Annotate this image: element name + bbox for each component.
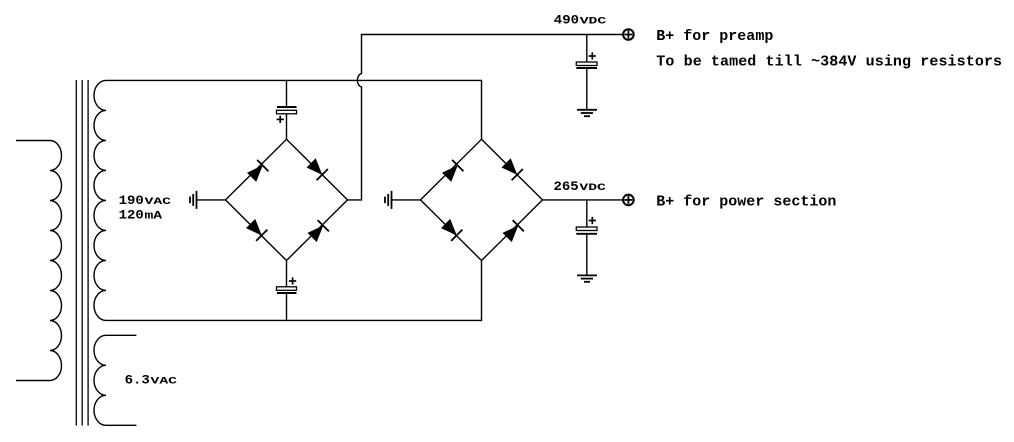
capacitor C2 (doubler bottom) plates [277, 287, 297, 293]
label 490VDC [554, 14, 607, 28]
svg-text:490: 490 [554, 14, 579, 28]
diode D3 bridge1 left-to-bottom [246, 219, 267, 241]
diode D4 bridge1 bottom-to-right [308, 220, 329, 242]
wire: C4 to ground [586, 69, 588, 110]
svg-text:6.3: 6.3 [125, 374, 150, 388]
transformer T1 secondary HV winding (190VAC) [94, 80, 106, 320]
terminal: B+ power section output [623, 195, 634, 206]
label 6.3VAC [125, 374, 178, 388]
wire: C1 branch from top AC line down to bridge 1 top vertex [286, 80, 288, 106]
capacitor C2 plus sign [289, 277, 296, 284]
label 190VAC 120mA [119, 194, 172, 208]
svg-text:VDC: VDC [580, 15, 607, 27]
bridge rectifier 2 diamond [421, 139, 543, 260]
diode D7 bridge2 left-to-bottom [441, 219, 462, 241]
diode D2 bridge1 top-to-right [307, 158, 328, 180]
svg-text:B+ for power section: B+ for power section [656, 193, 836, 210]
capacitor C4 (490V filter) lead [586, 35, 588, 63]
wire: top AC line from secondary to bridge 2 top vertex [106, 80, 482, 139]
capacitor C4 plus sign [589, 52, 596, 59]
capacitor C1 plus sign [277, 116, 284, 123]
svg-text:190: 190 [119, 194, 144, 208]
capacitor C3 (265V filter) lead [586, 200, 588, 227]
label 265VDC [554, 180, 607, 194]
diode D1 bridge1 left-to-top [247, 160, 268, 182]
bridge rectifier 1 diamond [226, 139, 348, 260]
svg-text:VDC: VDC [579, 181, 606, 193]
capacitor C4 plates [576, 62, 597, 68]
wire: bridge 1 right vertex to 490V riser with hop over top AC line [348, 35, 623, 200]
svg-text:120: 120 [119, 209, 144, 223]
ground below C4 [577, 110, 597, 116]
capacitor C1 (doubler top) plates [277, 107, 297, 114]
transformer T1 heater winding (6.3VAC) [94, 335, 136, 425]
diode D6 bridge2 top-to-right [502, 158, 523, 180]
svg-text:VAC: VAC [145, 195, 172, 207]
svg-text:To be tamed till ~384V using r: To be tamed till ~384V using resistors [656, 54, 1002, 71]
wire: C2 branch from bridge 1 bottom vertex down to bottom AC line [286, 261, 288, 287]
svg-text:B+ for preamp: B+ for preamp [656, 28, 773, 45]
capacitor C3 plus sign [589, 217, 596, 224]
wire: bridge 2 left vertex to ground [392, 199, 421, 201]
wire: bridge 2 right vertex to 265V terminal [543, 199, 623, 201]
ground at bridge 2 AC left (rotated) [385, 191, 392, 209]
wire: bottom AC line from secondary to bridge 2 bottom vertex [106, 261, 482, 321]
ground below C3 [577, 275, 597, 281]
svg-text:VAC: VAC [151, 375, 178, 387]
wire: C3 to ground [586, 234, 588, 274]
ground at bridge 1 AC left (rotated) [190, 191, 197, 209]
svg-text:mA: mA [145, 209, 163, 222]
transformer T1 primary winding [16, 141, 62, 381]
terminal: B+ preamp output [623, 29, 634, 40]
wire: bridge 1 left vertex to ground [197, 199, 226, 201]
diode D5 bridge2 left-to-top [442, 160, 463, 182]
transformer T1 core [76, 80, 88, 426]
diode D8 bridge2 bottom-to-right [503, 220, 524, 242]
capacitor C3 plates [576, 227, 597, 234]
svg-text:265: 265 [554, 180, 579, 194]
